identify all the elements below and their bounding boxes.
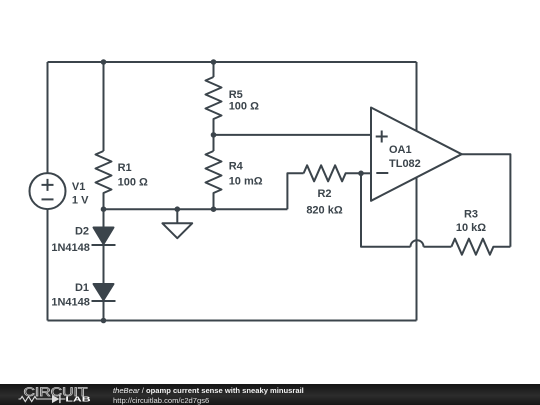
svg-text:V1: V1: [72, 181, 85, 193]
diode D1: [94, 284, 114, 300]
resistor R3: [451, 239, 510, 255]
svg-text:10 kΩ: 10 kΩ: [456, 222, 486, 234]
svg-text:OA1: OA1: [389, 144, 412, 156]
wire op-amp V+ pin: [416, 62, 418, 131]
node dot R5 R4 junction: [211, 132, 217, 138]
op-amp plus input symbol: [376, 131, 388, 143]
wire R3 left lead: [424, 246, 452, 248]
node dot inverting input: [358, 171, 364, 177]
node dot rail R1: [101, 59, 107, 65]
wire D2 anode: [103, 209, 105, 227]
svg-text:R5: R5: [229, 89, 243, 101]
wire D1 to bottom rail: [103, 300, 105, 321]
svg-text:820 kΩ: 820 kΩ: [306, 205, 343, 217]
wire hop over V- rail: [411, 240, 424, 247]
svg-text:D1: D1: [75, 282, 89, 294]
svg-text:TL082: TL082: [389, 158, 421, 170]
svg-text:10 mΩ: 10 mΩ: [229, 176, 263, 188]
wire op-amp V- pin: [416, 178, 418, 321]
wire inverting input: [361, 172, 371, 174]
wire R2 left riser: [287, 173, 303, 209]
node dot rail R5: [211, 59, 217, 65]
svg-text:1N4148: 1N4148: [51, 297, 90, 309]
wire V1 top lead to rail: [47, 62, 49, 173]
svg-text:100 Ω: 100 Ω: [118, 176, 148, 188]
wire op-amp output to R3: [462, 154, 511, 247]
footer bar: [0, 384, 540, 405]
node dot R1 bottom: [101, 206, 107, 212]
svg-text:100 Ω: 100 Ω: [229, 100, 259, 112]
svg-text:1N4148: 1N4148: [51, 242, 90, 254]
resistor R2: [304, 165, 361, 181]
voltage source V1: [30, 173, 66, 209]
resistor R1: [96, 151, 112, 209]
wire bottom rail: [48, 320, 417, 322]
svg-text:R3: R3: [464, 209, 478, 221]
wire D2 to D1: [103, 244, 105, 284]
resistor R5: [206, 77, 222, 135]
wire R5/R4 junction: [213, 135, 215, 151]
diode D1 cathode bar: [92, 300, 116, 302]
resistor R4: [206, 151, 222, 209]
svg-text:D2: D2: [75, 226, 89, 238]
svg-text:LAB: LAB: [65, 394, 90, 403]
V1 minus symbol: [42, 198, 54, 200]
svg-text:R1: R1: [118, 162, 132, 174]
diode D2: [94, 228, 114, 245]
node dot ground: [175, 206, 181, 212]
wire R5 top to rail: [213, 62, 215, 77]
op-amp U1 body: [371, 108, 462, 201]
footer url text: [113, 397, 209, 405]
ground: [162, 209, 192, 238]
wire feedback left riser: [361, 173, 411, 246]
footer title text: [113, 387, 304, 395]
svg-text:R4: R4: [229, 161, 244, 173]
wire noninverting input: [214, 134, 372, 136]
op-amp minus input symbol: [376, 172, 388, 174]
diode D2 cathode bar: [92, 244, 116, 246]
CircuitLab logo: [0, 384, 110, 405]
svg-text:1 V: 1 V: [72, 195, 89, 207]
node dot D1 bottom rail: [101, 318, 107, 324]
V1 plus symbol: [42, 179, 54, 191]
node dot R4 bottom: [211, 206, 217, 212]
wire mid node from R1 to R2 riser: [104, 208, 288, 210]
wire R1 top to rail: [103, 62, 105, 151]
svg-text:R2: R2: [317, 188, 331, 200]
wire top rail: [48, 61, 417, 63]
wire V1 bottom lead to bottom rail: [47, 209, 49, 321]
